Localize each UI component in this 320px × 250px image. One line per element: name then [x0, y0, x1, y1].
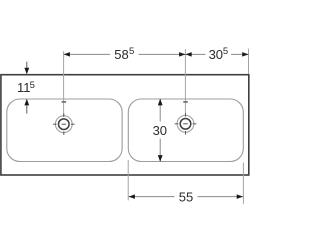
- svg-text:55: 55: [179, 190, 193, 205]
- svg-text:11: 11: [17, 80, 31, 95]
- svg-text:5: 5: [30, 80, 35, 91]
- svg-text:58: 58: [114, 47, 128, 62]
- svg-text:5: 5: [223, 46, 228, 57]
- svg-text:5: 5: [129, 46, 134, 57]
- svg-text:30: 30: [209, 47, 223, 62]
- svg-text:30: 30: [153, 123, 167, 138]
